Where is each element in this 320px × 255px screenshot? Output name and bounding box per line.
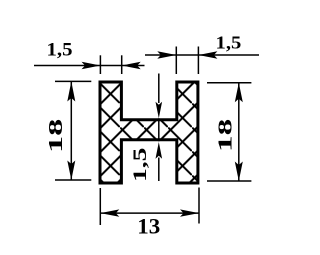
arrow pointing right at left tick — [157, 51, 176, 58]
arrow pointing left — [100, 209, 119, 216]
extension line left — [99, 188, 101, 225]
arrow pointing right — [180, 209, 199, 216]
dimension: bottom overall width 13 — [100, 188, 199, 226]
extension tick top — [207, 82, 251, 84]
arrow pointing left at right tick — [198, 51, 217, 58]
wire dimension line — [100, 212, 199, 214]
wire lower segment — [158, 158, 160, 182]
dimension: top-right wall thickness 1,5 — [145, 47, 259, 75]
arrow pointing right at left tick — [82, 62, 101, 69]
dimension: left height 18 — [55, 81, 91, 180]
extension tick left — [175, 47, 177, 75]
svg-text:1,5: 1,5 — [47, 40, 73, 61]
svg-text:1,5: 1,5 — [216, 33, 242, 53]
extension line right — [198, 188, 200, 224]
arrow pointing up — [235, 83, 243, 103]
arrow pointing down — [67, 161, 75, 181]
extension tick bottom — [207, 180, 251, 182]
dimension: right height 18 — [207, 83, 251, 181]
wire dimension line — [238, 83, 240, 181]
H-profile cross-section (hatched) — [100, 82, 198, 183]
arrow pointing down at crossbar top — [156, 102, 163, 119]
extension tick top — [55, 80, 91, 82]
dimension: crossbar thickness 1,5 (middle) — [158, 74, 160, 182]
wire through crossbar — [158, 118, 160, 141]
svg-text:18: 18 — [45, 119, 67, 153]
dimension: top-left wall thickness 1,5 — [34, 55, 145, 74]
wire upper segment — [158, 74, 160, 104]
svg-text:13: 13 — [137, 214, 160, 238]
extension tick bottom — [55, 179, 91, 181]
extension tick right — [197, 47, 199, 75]
wire leader line — [145, 54, 259, 56]
extension tick right — [121, 55, 123, 74]
wire leader line — [34, 65, 145, 67]
arrow pointing down — [235, 162, 243, 182]
extension tick left — [99, 55, 101, 74]
wire dimension line — [70, 81, 72, 180]
svg-text:18: 18 — [214, 119, 236, 152]
arrow pointing up — [67, 81, 75, 101]
svg-text:1,5: 1,5 — [131, 148, 151, 182]
arrow pointing left at right tick — [122, 62, 141, 69]
arrow pointing up at crossbar bottom — [156, 142, 163, 159]
